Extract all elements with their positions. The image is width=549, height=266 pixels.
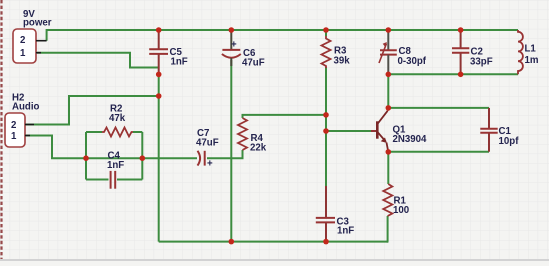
junction R4 top node bbox=[323, 112, 329, 118]
svg-text:33pF: 33pF bbox=[470, 57, 493, 68]
svg-text:+: + bbox=[207, 159, 213, 170]
capacitor C1 bbox=[480, 108, 519, 152]
wire R2/C4 right branch bbox=[141, 132, 143, 180]
junction audio node bbox=[156, 93, 162, 99]
junction on top rail at C8 bbox=[386, 27, 392, 33]
junction R2/C4 left bbox=[83, 155, 89, 161]
wire tank bottom bbox=[388, 73, 518, 75]
resistor R1 bbox=[383, 184, 409, 216]
wire R2 top segment bbox=[86, 131, 142, 133]
junction ground rail at C6 bbox=[229, 239, 235, 245]
svg-text:10pf: 10pf bbox=[499, 136, 520, 147]
capacitor C8 variable bbox=[379, 30, 427, 74]
wire R1 bottom to ground rail bbox=[387, 216, 390, 242]
svg-text:2: 2 bbox=[11, 120, 16, 131]
junction base node bbox=[323, 128, 329, 134]
wire node to C3 bbox=[325, 115, 327, 187]
svg-text:1: 1 bbox=[20, 48, 26, 59]
svg-text:2N3904: 2N3904 bbox=[393, 134, 428, 145]
junction C5 bottom bbox=[156, 72, 162, 78]
wire C4 bottom segment bbox=[86, 179, 142, 181]
junction tank bottom at C2 bbox=[458, 72, 464, 78]
wire C5 bottom node down bbox=[158, 74, 160, 241]
wire base node to Q1 bbox=[326, 130, 371, 132]
junction tank bottom at C8 bbox=[386, 72, 392, 78]
wire R3 bottom vertical bbox=[325, 67, 327, 115]
svg-text:L1: L1 bbox=[525, 44, 537, 55]
capacitor C5 bbox=[149, 30, 188, 74]
svg-text:+: + bbox=[231, 40, 237, 51]
junction on top rail at C6 bbox=[229, 27, 235, 33]
capacitor C7 polarized bbox=[196, 128, 219, 170]
sheet border dashed bbox=[0, 0, 2, 261]
svg-text:Audio: Audio bbox=[12, 102, 40, 113]
wire H1 pin1 to C5 bottom bbox=[37, 53, 159, 68]
svg-text:39k: 39k bbox=[334, 56, 351, 67]
svg-text:1nF: 1nF bbox=[107, 160, 124, 171]
connector H1 9V power bbox=[13, 9, 52, 63]
resistor R4 bbox=[238, 118, 267, 154]
svg-text:22k: 22k bbox=[250, 143, 267, 154]
wire H2 pin2 to node bbox=[25, 96, 159, 125]
svg-text:2: 2 bbox=[20, 35, 25, 46]
svg-text:47k: 47k bbox=[109, 113, 126, 124]
capacitor C4 bbox=[107, 151, 124, 189]
wire C1 return to emitter bbox=[388, 151, 489, 153]
inductor L1 bbox=[518, 30, 539, 74]
svg-text:power: power bbox=[23, 18, 52, 29]
wire R2/C4 left branch bbox=[85, 132, 87, 180]
wire bottom ground rail bbox=[159, 241, 389, 243]
svg-text:1: 1 bbox=[11, 131, 17, 142]
wire middle signal segment bbox=[86, 157, 142, 159]
wire collector to C1 bbox=[388, 107, 489, 109]
junction on top rail at C2 bbox=[458, 27, 464, 33]
wire to C7 bbox=[142, 157, 197, 159]
capacitor C3 bbox=[316, 186, 355, 242]
transistor Q1 2N3904 bbox=[371, 108, 427, 152]
svg-text:1m: 1m bbox=[525, 55, 539, 66]
svg-text:100: 100 bbox=[393, 205, 409, 216]
wire C7 to R4 bottom bbox=[207, 150, 243, 158]
wire R4 top to R3 node bbox=[243, 115, 327, 118]
svg-text:0-30pf: 0-30pf bbox=[398, 56, 427, 67]
connector H2 Audio bbox=[5, 93, 40, 148]
junction R2/C4 right bbox=[140, 155, 146, 161]
capacitor C2 bbox=[452, 30, 493, 74]
svg-text:47uF: 47uF bbox=[242, 58, 265, 69]
svg-text:1nF: 1nF bbox=[337, 226, 354, 237]
resistor R3 bbox=[322, 30, 351, 68]
wire emitter to R1 bbox=[387, 152, 389, 184]
junction emitter node bbox=[386, 149, 392, 155]
junction collector node bbox=[386, 105, 392, 111]
bottom window edge bbox=[0, 259, 549, 261]
capacitor C6 polarized bbox=[222, 30, 265, 69]
svg-text:1nF: 1nF bbox=[171, 57, 188, 68]
wire C6 vertical to ground bbox=[230, 60, 232, 242]
svg-text:47uF: 47uF bbox=[196, 138, 219, 149]
junction on top rail at R3 bbox=[323, 27, 329, 33]
junction ground rail at C3 bbox=[323, 239, 329, 245]
wire top power rail bbox=[47, 30, 518, 41]
wire tank to collector bbox=[387, 74, 389, 108]
wire H2 pin1 to R2/C4 bbox=[25, 136, 86, 159]
resistor R2 bbox=[102, 104, 133, 137]
junction on top rail at C5 bbox=[156, 27, 162, 33]
